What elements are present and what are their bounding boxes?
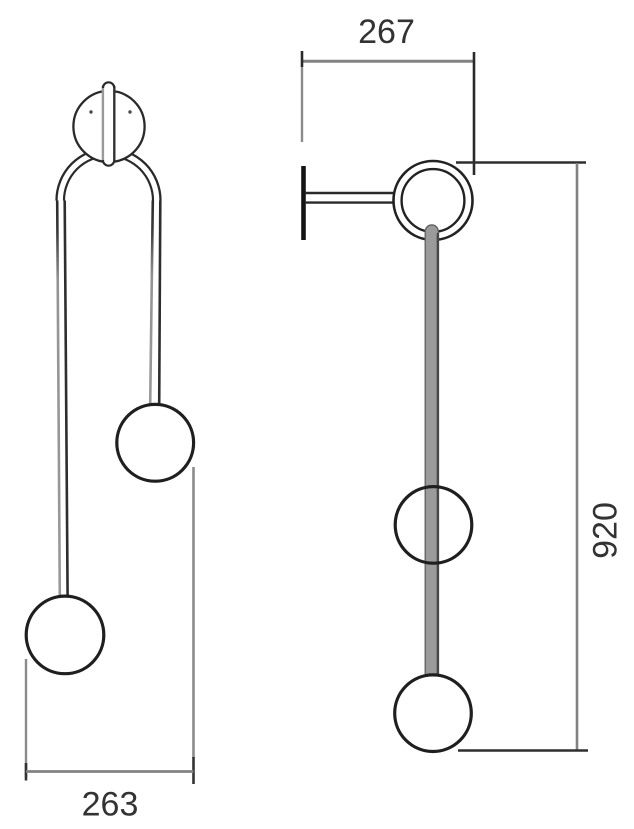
svg-text:920: 920 [587, 502, 625, 559]
front view: stem left wall [102, 86, 104, 160]
front view: lower globe [26, 596, 104, 674]
dim 263: left tick [25, 763, 28, 781]
side view: bracket arm bottom line [305, 201, 394, 203]
side view: middle globe [395, 487, 472, 564]
side view: bottom globe [395, 675, 472, 752]
front view: right leg outer wire [159, 201, 160, 405]
front view: upper globe [117, 404, 194, 481]
dim 920: label (rotated) [587, 502, 625, 559]
dim 267: dimension line [302, 60, 474, 63]
svg-text:263: 263 [82, 786, 139, 824]
dim 263: dimension line [26, 770, 194, 773]
front view: canopy circle [73, 91, 144, 162]
front view: left leg inner wire [65, 201, 68, 597]
front view: left screw dot [89, 110, 92, 113]
front view: arch inner arc [64, 156, 153, 201]
side view: bracket arm top line [305, 192, 394, 194]
dim 263: left extension line [25, 659, 27, 777]
side view: rod [425, 225, 438, 676]
dim 920: top extension line [456, 161, 586, 163]
dim 267: right tick [473, 52, 476, 175]
front view: right screw dot [128, 110, 131, 113]
front view: stem white fill [103, 82, 114, 166]
side view: ring outer circle [394, 161, 473, 240]
front view: stem top cap [103, 82, 114, 88]
side view: wall plate [301, 166, 306, 240]
front view: right leg inner wire [150, 201, 153, 405]
front view: stem bottom cap [103, 160, 114, 166]
dim 267: left tick [301, 51, 304, 67]
front view: left leg outer wire [57, 201, 60, 597]
front view: stem right wall [113, 86, 115, 160]
dim 267: left extension line [301, 67, 303, 142]
side view: ring inner circle [402, 169, 465, 232]
dim 920: dimension line [576, 163, 579, 750]
dim 920: bottom extension line [458, 749, 588, 751]
dim 263: right extension line [192, 467, 195, 758]
svg-text:267: 267 [358, 13, 415, 51]
dim 263: right tick [192, 757, 195, 784]
front view: arch outer arc [57, 149, 161, 201]
side view: rod right edge [437, 233, 440, 676]
